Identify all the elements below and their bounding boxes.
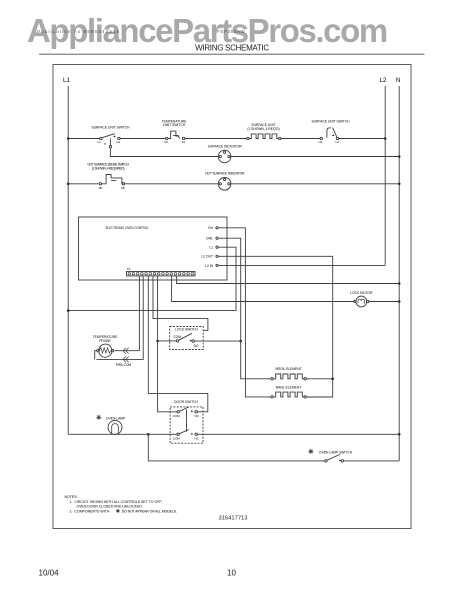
node junction N at door switch NC [398,433,401,436]
hot surface indicator lamp [218,178,231,191]
wire N bus vertical [398,86,400,461]
node junction row1 L2 [384,137,387,140]
svg-text:SURFACE UNIT SWITCH: SURFACE UNIT SWITCH [91,125,130,129]
svg-text:H2: H2 [319,140,323,144]
door switch upper arrow mark [191,410,194,412]
svg-text:(1 SHOWN, 4 REQ'D): (1 SHOWN, 4 REQ'D) [247,127,279,131]
svg-text:L2 OUT: L2 OUT [201,255,213,259]
lock switch arrow mark [190,339,193,341]
svg-text:HOT SURFACE INDICATOR: HOT SURFACE INDICATOR [205,172,245,176]
door switch link bar [186,410,188,432]
wire EOC L2 IN from L2 bus [218,264,385,266]
broil element [273,374,305,379]
EOC connector strip P1 [127,272,196,276]
surface unit switch SW2 arrow mark [332,134,335,136]
wire lock switch NO to DRL line [194,340,240,342]
oven lamp E1 [108,420,122,434]
wire row1 element to surface unit switch SW2 [281,138,320,140]
node junction row2 N [398,155,401,158]
door switch upper blade [179,407,188,411]
svg-text:FEF352AW: FEF352AW [217,29,245,34]
door switch lower COM terminal [177,433,179,435]
wire strip pin to lock motor line [172,276,355,301]
broil element left terminal [271,378,273,380]
surface unit element right terminal [279,137,281,139]
surface unit switch SW2 right terminal L2 [336,137,338,139]
svg-text:DOOR SWITCH: DOOR SWITCH [174,400,198,404]
oven lamp switch right terminal [341,460,343,462]
wire row1 temp limit to surface unit element [185,138,247,140]
node junction N at EOC neutral wire [398,282,401,285]
svg-text:L1: L1 [209,246,213,250]
bake element left terminal [271,396,273,398]
node junction lock switch COM tee [156,340,159,343]
wire strip pin to door switch NO wrap [148,276,208,412]
surface unit switch SW2 hook [327,128,331,138]
svg-text:DRL: DRL [206,237,213,241]
surface indicator lamp [218,150,231,163]
wire L1 to oven lamp row [68,433,177,435]
door switch box [170,407,203,443]
wire oven lamp switch to N [344,460,400,462]
svg-text:ELECTRONIC OVEN CONTROL: ELECTRONIC OVEN CONTROL [106,226,149,230]
surface unit switch SW1 arrow mark A [113,135,115,137]
door switch upper COM terminal [177,411,179,413]
wire door switch NC to N [197,433,399,435]
svg-text:P: P [104,142,106,146]
svg-text:NO: NO [195,414,200,418]
hot surface sense switch right terminal 2B [122,183,124,185]
temperature limit switch thermal bump [168,131,180,138]
node junction row3 N [398,183,401,186]
wire EOC DH to bake element feed [218,228,271,397]
wire lock motor to N [369,301,399,303]
lock motor M1 [354,300,356,302]
oven lamp switch arrow mark [339,459,342,461]
svg-text:LOCK SWITCH: LOCK SWITCH [175,327,199,331]
svg-text:L2 IN: L2 IN [205,264,213,268]
bake element [273,392,305,397]
svg-text:L1: L1 [63,77,70,84]
oven lamp switch left terminal [325,460,327,462]
wire row3 sense switch to hot surface indicator [125,183,219,185]
hot surface sense switch left terminal 1B [99,183,101,185]
hot surface sense switch thermal bump [102,175,124,184]
wire strip pin to neutral [177,276,400,283]
svg-text:P1: P1 [127,267,131,271]
bake element right terminal [304,396,306,398]
node junction L1 row3 [67,183,70,186]
svg-text:COM: COM [173,335,181,339]
svg-text:DH: DH [208,226,213,230]
wire strip pin to lock switch upper contact [153,276,208,330]
surface unit switch SW1 blade [102,134,115,138]
probe connector chevrons com [123,356,129,362]
wire row3 L1 to hot surface sense switch [68,183,99,185]
temperature limit switch left terminal 2A [166,137,168,139]
wire row1 switch to temperature limit switch [120,138,165,140]
svg-text:SURFACE UNIT SWITCH: SURFACE UNIT SWITCH [311,119,350,123]
EOC connector strip pins [128,272,194,275]
wire oven lamp branch to lamp switch [148,434,324,461]
svg-text:Publication no 5995443216: Publication no 5995443216 [37,29,120,34]
surface unit switch SW2 blade [333,128,337,137]
node junction L1 row1 [67,137,70,140]
wire row3 hot surface indicator to N [231,183,399,185]
lock switch NO terminal [192,340,194,342]
wire row1 L1 to surface unit switch [68,138,100,140]
oven lamp asterisk [96,415,101,420]
probe connector chevrons right [123,348,129,354]
wire strip pin to temperature probe com [96,276,143,359]
wire EOC L1 to L1 bus [68,247,236,310]
svg-text:316417713: 316417713 [218,515,247,521]
svg-text:NOTES:: NOTES: [65,495,78,499]
svg-text:10/04: 10/04 [39,569,60,578]
door switch lower arrow mark [191,433,194,435]
svg-text:L2: L2 [336,140,340,144]
svg-text:N: N [396,77,400,84]
svg-text:NO: NO [194,344,199,348]
lock switch blade [179,333,192,340]
temperature probe RT1 [99,344,112,357]
node junction N at lock motor [398,300,401,303]
surface unit element left terminal [247,137,249,139]
wire row1 SW2 to L2 bus [339,138,386,140]
svg-text:1B: 1B [98,186,102,190]
surface unit switch SW1 right terminal H1 [118,137,120,139]
wire broil element to L2 OUT line [306,378,332,380]
node junction L2 OUT at broil [331,378,334,381]
svg-text:2B: 2B [121,186,125,190]
svg-text:2. COMPONENTS WITH: 2. COMPONENTS WITH [70,509,110,513]
oven lamp switch asterisk [308,449,313,454]
svg-text:2A: 2A [164,140,168,144]
lock switch box [170,327,204,350]
node junction oven lamp branch [147,433,150,436]
oven lamp switch blade [327,454,340,460]
surface unit heating element [249,134,279,139]
wire EOC DRL to broil element feed [218,238,271,379]
svg-text:COM: COM [173,436,181,440]
temperature limit switch right terminal 1A [182,137,184,139]
schematic border frame [53,65,411,529]
wire strip pin to temperature probe right [115,276,140,351]
svg-text:SURFACE INDICATOR: SURFACE INDICATOR [208,144,243,148]
surface unit switch SW2 left terminal H2 [320,137,322,139]
door switch upper NO terminal [195,411,197,413]
svg-text:(1 SHOWN, 4 REQUIRED): (1 SHOWN, 4 REQUIRED) [92,166,124,170]
wire EOC L2 OUT to elements [218,256,333,397]
surface unit switch SW1 left terminal L1 [100,137,102,139]
svg-text:1. CIRCUIT SHOWN WITH ALL CON: 1. CIRCUIT SHOWN WITH ALL CONTROLS SET T… [70,500,163,504]
svg-text:L2: L2 [380,77,387,84]
svg-text:COM: COM [173,414,181,418]
svg-text:BROIL ELEMENT: BROIL ELEMENT [275,367,301,371]
svg-text:NC: NC [195,436,200,440]
title rule line [39,53,425,55]
svg-text:H1: H1 [116,140,120,144]
wire strip pin to lock switch COM and door switch COM [158,276,177,412]
wire row2 surface indicator to N [231,156,399,158]
wire temperature probe com loop [95,351,97,360]
svg-text:OVEN LAMP: OVEN LAMP [106,417,126,421]
svg-text:1A: 1A [182,140,186,144]
svg-text:WIRING SCHEMATIC: WIRING SCHEMATIC [195,43,269,52]
svg-text:LIMIT SWITCH: LIMIT SWITCH [163,123,186,127]
wire L1 bus vertical [67,86,69,434]
wire lock switch COM from strip [159,340,176,342]
svg-text:OVEN DOOR CLOSED AND UNLOCKED.: OVEN DOOR CLOSED AND UNLOCKED. [77,505,143,509]
door switch lower blade [179,430,188,434]
svg-text:L1: L1 [98,140,102,144]
svg-text:BAKE ELEMENT: BAKE ELEMENT [276,386,301,390]
node junction L1 at EOC L1 wire [67,309,70,312]
lock switch COM terminal [176,340,178,342]
wire L2 bus vertical [384,86,386,265]
electronic oven control box U1 [79,217,228,280]
surface unit switch SW1 P stub and terminal [109,139,111,146]
door switch lower NC terminal [195,433,197,435]
broil element right terminal [304,378,306,380]
wire row2 pilot drop to surface indicator [110,148,218,157]
svg-text:LOCK MOTOR: LOCK MOTOR [350,291,373,295]
svg-text:10: 10 [227,569,236,578]
svg-text:PROBE: PROBE [99,339,111,343]
svg-text:OVEN LAMP SWITCH: OVEN LAMP SWITCH [319,451,353,455]
svg-text:PRB COM: PRB COM [116,363,132,367]
svg-text:DO NOT APPEAR ON ALL MODELS.: DO NOT APPEAR ON ALL MODELS. [122,509,177,513]
node junction DRL at lock switch NO [239,340,242,343]
